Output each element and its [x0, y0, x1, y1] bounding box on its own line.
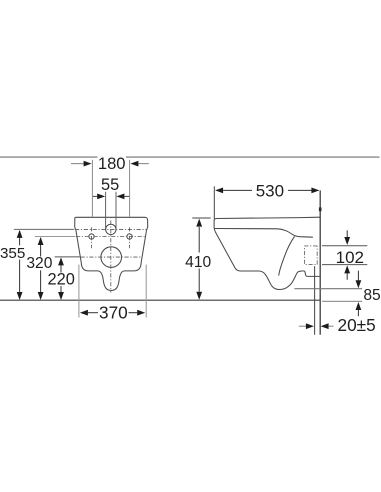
- svg-text:410: 410: [185, 254, 211, 271]
- side view: toilet back vertical line: [314, 266, 316, 335]
- dim 85: arrows: [357, 271, 359, 281]
- front view: right bolt hole: [127, 234, 132, 239]
- svg-text:530: 530: [256, 182, 284, 201]
- side view: dashed flush unit box: [305, 246, 318, 265]
- svg-text:355: 355: [0, 245, 25, 262]
- side view: seat underside line: [214, 229, 313, 238]
- side view: front edge and bowl underside: [214, 221, 320, 290]
- svg-text:220: 220: [48, 271, 75, 289]
- dim 180: left arrow: [71, 163, 84, 165]
- dim 410: extension line: [192, 217, 210, 219]
- svg-text:370: 370: [99, 303, 128, 323]
- centerline vertical front view: [110, 221, 112, 293]
- svg-text:102: 102: [336, 248, 364, 267]
- dim 530: arrows: [215, 188, 223, 194]
- side view: seat top edge: [214, 217, 320, 221]
- dim 85: upper reference line (bowl bottom): [294, 288, 362, 290]
- dim 370: extension lines: [78, 265, 80, 318]
- dim 530: left extension line: [213, 186, 215, 219]
- svg-text:55: 55: [101, 176, 119, 194]
- front view: toilet body outline: [75, 217, 148, 290]
- dim 320: dimension line + arrows: [40, 238, 42, 257]
- floor line: [0, 299, 321, 301]
- svg-text:20±5: 20±5: [338, 315, 376, 335]
- side view: wall tick: [319, 207, 322, 211]
- dim 355: dimension line + arrows: [19, 231, 21, 245]
- centerline vertical right bolt: [129, 227, 131, 248]
- top wall reference line: [0, 156, 380, 158]
- dim 20±5: arrows: [299, 325, 306, 327]
- centerline vertical left bolt: [91, 227, 93, 248]
- side view: bowl back arc: [279, 236, 295, 275]
- dim 220: dimension line + arrows: [60, 259, 62, 273]
- centerline horizontal through bolt holes: [76, 236, 146, 238]
- dim 355: extension line: [14, 228, 74, 230]
- centerline horizontal through flush pipe: [75, 228, 147, 230]
- dim 180: right arrow: [138, 163, 148, 165]
- dim 320: extension line: [35, 236, 76, 238]
- front view: flush pipe circle: [106, 224, 116, 234]
- front view: left bolt hole: [89, 234, 94, 239]
- dim 102: reference lines: [322, 245, 367, 247]
- floor line right gray segment (85 lower ref): [322, 300, 362, 302]
- svg-text:85: 85: [363, 287, 381, 304]
- dim 55: arrows: [93, 195, 98, 197]
- front view: flush pipe lines: [105, 192, 107, 229]
- dim 102: arrows: [346, 230, 348, 237]
- side view: wall line: [319, 190, 321, 334]
- dim 180: label: [98, 156, 127, 170]
- dim 220: extension line: [55, 256, 80, 258]
- dim 370: arrows: [80, 310, 88, 316]
- front view: outlet circle: [101, 247, 122, 268]
- svg-text:180: 180: [98, 154, 126, 173]
- centerline horizontal through outlet: [81, 256, 142, 258]
- dim 410: dimension line + arrows: [198, 227, 200, 253]
- dim 180: extension lines: [91, 160, 93, 217]
